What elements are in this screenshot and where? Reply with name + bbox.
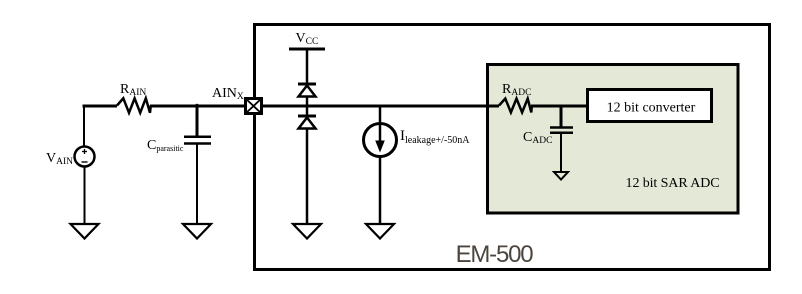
wire: current source to ground <box>379 157 382 226</box>
12 bit SAR ADC green box <box>488 65 739 214</box>
minus sign <box>82 161 88 163</box>
ground (CADC, small) <box>554 172 568 180</box>
wire: D1 to main wire to D2 <box>306 97 309 117</box>
wire: AINx into EM-500 to RADC <box>263 105 499 108</box>
svg-text:Cparasitic: Cparasitic <box>147 138 184 153</box>
svg-text:EM-500: EM-500 <box>456 241 534 268</box>
wire: resistor to AINx pin <box>150 105 244 108</box>
wire: top-left bend to resistor R_AIN <box>83 105 85 147</box>
12 bit converter box U1 <box>588 90 712 122</box>
svg-text:VCC: VCC <box>296 31 319 47</box>
wire: junction down to CADC <box>560 106 563 127</box>
wire: main wire to current source <box>379 106 382 124</box>
diode D1 (to VCC) <box>298 84 316 97</box>
VCC supply bar <box>289 48 325 51</box>
diode D2 (to GND) <box>298 116 316 129</box>
pin AINx crossed box <box>246 99 262 114</box>
resistor RADC <box>499 99 532 113</box>
svg-text:Ileakage+/-50nA: Ileakage+/-50nA <box>400 128 470 146</box>
capacitor Cparasitic <box>184 137 211 144</box>
junction node (Cparasitic tap) <box>195 104 199 108</box>
ground (Cparasitic) <box>183 224 211 239</box>
wire: junction down to Cparasitic <box>196 106 199 136</box>
wire: Cparasitic to ground <box>196 144 198 226</box>
svg-text:RAIN: RAIN <box>120 82 146 98</box>
svg-text:AINX: AINX <box>212 86 244 102</box>
wire: VCC bar to diode D1 <box>306 49 309 84</box>
svg-text:12 bit converter: 12 bit converter <box>607 101 696 116</box>
resistor RAIN <box>117 98 151 113</box>
capacitor CADC <box>550 128 573 133</box>
ground (current source) <box>366 224 394 239</box>
ground (diodes) <box>293 224 321 239</box>
EM-500 enclosure box <box>255 25 770 270</box>
svg-text:12 bit SAR ADC: 12 bit SAR ADC <box>626 176 720 191</box>
current source Ileakage <box>364 124 397 157</box>
voltage source VAIN <box>75 147 95 167</box>
wire: RADC to converter <box>531 105 586 108</box>
wire: D2 to ground <box>306 129 309 226</box>
ground (VAIN) <box>71 224 99 239</box>
svg-text:VAIN: VAIN <box>46 151 73 167</box>
plus sign <box>82 149 87 154</box>
wire: VAIN to ground <box>84 167 86 226</box>
wire: CADC to ground <box>560 133 562 172</box>
